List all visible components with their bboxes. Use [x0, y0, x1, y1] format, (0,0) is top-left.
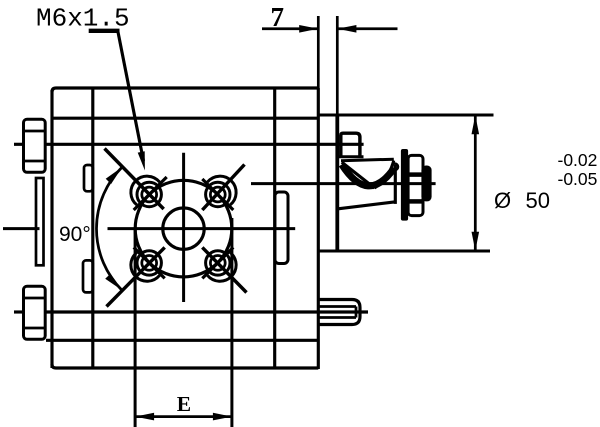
shaft key block: [341, 133, 360, 157]
shaft shoulder: [394, 165, 397, 204]
diameter 50 bottom arrowhead: [472, 232, 480, 251]
hole bottom-right outer circle: [206, 251, 230, 275]
svg-text:50: 50: [526, 188, 550, 213]
top bolt facet line upper: [24, 130, 46, 133]
pump body bottom edge: [52, 364, 318, 368]
nut facet upper: [408, 172, 423, 177]
90 arc top arrowhead: [106, 167, 123, 184]
dim 7 right line: [338, 27, 398, 30]
bottom right plug inner top: [318, 305, 356, 308]
svg-text:-0.05: -0.05: [558, 169, 598, 189]
90 degree dimension arc: [96, 167, 122, 290]
hole top-left chamfer diagonal: [105, 149, 164, 210]
shaft centerline: [251, 182, 436, 185]
svg-text:7: 7: [271, 2, 285, 32]
right port slot: [275, 192, 288, 264]
hole bottom-left outer circle: [137, 251, 161, 275]
top ports centerline y=144.2: [14, 143, 25, 146]
E extension line right: [230, 218, 233, 427]
nut washer (filled): [401, 149, 408, 221]
hole top-right inner circle: [210, 187, 225, 202]
flange face vertical x=92.8: [91, 88, 94, 368]
hole bottom-right chamfer diagonal: [202, 247, 246, 292]
hole bottom-left inner circle: [142, 256, 157, 271]
top mounting bolt head: [24, 119, 46, 172]
hole bottom-left chamfer diagonal: [107, 247, 165, 306]
nut facet lower: [408, 199, 423, 204]
dim 7 right arrowhead: [337, 25, 356, 33]
diameter 50 top extension line: [318, 114, 493, 117]
diameter 50 top arrowhead: [472, 115, 480, 134]
hole top-right cross diagonal: [202, 179, 233, 210]
hole bottom-right corner arc: [207, 253, 236, 282]
flange vertical centerline: [182, 153, 185, 302]
flange horizontal centerline main segment: [108, 227, 296, 230]
shaft key bottom edge: [337, 155, 363, 158]
top bolt facet line lower: [24, 160, 46, 163]
hole bottom-left corner arc: [131, 253, 160, 282]
shaft threaded tip (filled): [421, 166, 431, 202]
E extension line left: [134, 229, 137, 427]
dim 7 left line: [262, 27, 318, 30]
washer bowl left boundary (tab): [342, 162, 375, 188]
bottom bolt facet line lower: [24, 327, 46, 330]
svg-text:-0.02: -0.02: [558, 150, 598, 170]
hole top-left outer circle: [137, 182, 161, 206]
svg-text:Ø: Ø: [494, 188, 511, 213]
leader arrowhead: [138, 151, 145, 170]
bottom right plug inner bottom: [318, 316, 356, 319]
flange horizontal centerline left segment: [3, 227, 40, 230]
E dim left arrowhead: [135, 413, 154, 421]
bottom mounting bolt head: [24, 286, 46, 339]
svg-text:E: E: [177, 392, 191, 416]
bottom right plug outer: [318, 300, 360, 325]
diameter 50 dimension line: [474, 116, 477, 250]
hole bottom-right cross diagonal: [202, 247, 233, 278]
bottom ports centerline y=312: [14, 310, 25, 313]
upper flange slot: [84, 165, 93, 191]
90 arc bottom arrowhead: [105, 274, 122, 290]
body vertical x=274.7: [273, 88, 276, 368]
hole bottom-left cross diagonal: [134, 247, 165, 278]
mounting face line / extension line x=337.3: [336, 16, 339, 115]
diameter 50 bottom extension line: [318, 250, 490, 253]
central shaft bore circle: [163, 208, 204, 249]
pump body outer top edge: [52, 88, 318, 92]
hole top-right chamfer diagonal: [202, 165, 244, 211]
hole top-left cross diagonal: [134, 177, 167, 210]
hole bottom-right inner circle: [210, 256, 225, 271]
hole top-right corner arc: [207, 176, 236, 205]
svg-text:90°: 90°: [59, 223, 91, 246]
lower flange slot: [83, 260, 93, 292]
hole top-left inner circle: [142, 187, 157, 202]
pump body left edge: [50, 90, 53, 368]
bolt circle: [135, 180, 232, 277]
dim 7 left arrowhead: [299, 25, 318, 33]
leader underline: [89, 29, 120, 33]
bottom right plug inner end: [355, 307, 358, 318]
hole top-left corner arc: [131, 176, 160, 205]
bottom bolt facet line upper: [24, 297, 46, 300]
body horizontal line y=118: [52, 117, 318, 120]
nut body: [408, 155, 423, 215]
washer bowl right boundary arc: [375, 161, 394, 189]
washer outer thick arc: [342, 165, 394, 186]
rear cover edge / extension line x=318.3: [317, 16, 320, 88]
leader line: [118, 31, 144, 161]
hole top-right outer circle: [206, 182, 230, 206]
washer chord line: [341, 159, 394, 161]
shaft cone bottom edge: [338, 202, 396, 209]
E dim right arrowhead: [213, 413, 232, 421]
E dimension line: [136, 415, 231, 418]
left gasket plate: [36, 178, 44, 265]
washer small circle: [392, 164, 398, 170]
body bottom inner line y=340: [46, 339, 318, 342]
